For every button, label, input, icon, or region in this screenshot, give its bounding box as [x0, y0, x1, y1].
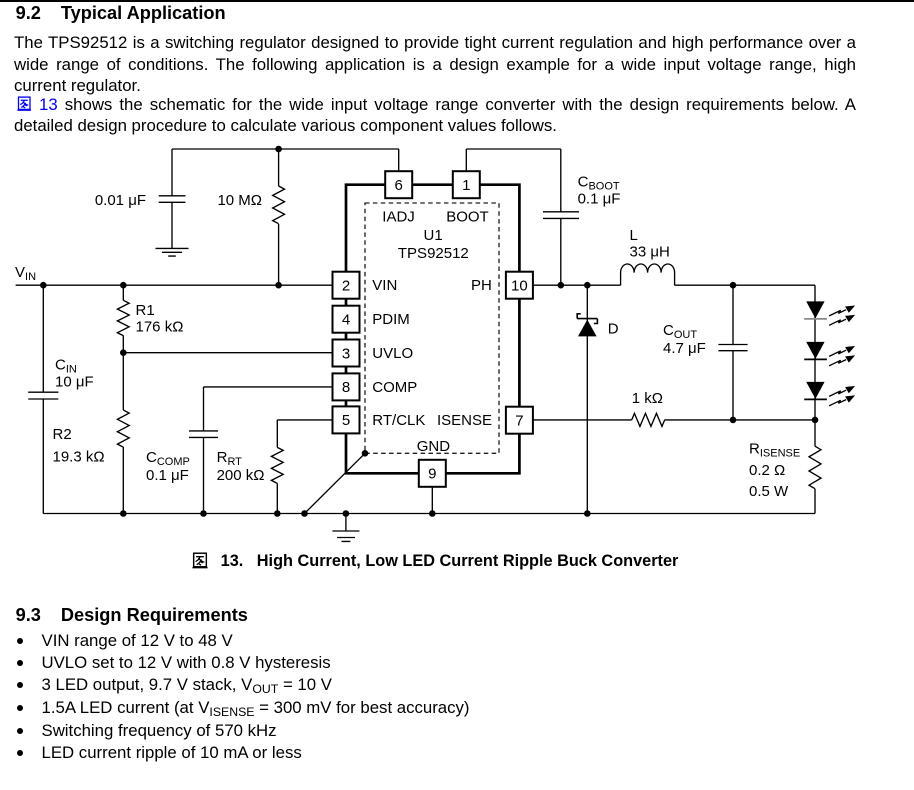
svg-text:RT/CLK: RT/CLK — [372, 412, 425, 429]
svg-text:IADJ: IADJ — [382, 209, 415, 226]
svg-text:0.01 μF: 0.01 μF — [95, 192, 146, 209]
svg-text:4.7 μF: 4.7 μF — [663, 340, 706, 357]
svg-text:4: 4 — [342, 312, 350, 329]
svg-text:1: 1 — [462, 177, 470, 194]
svg-text:9: 9 — [428, 466, 436, 483]
svg-text:COMP: COMP — [372, 379, 417, 396]
svg-text:8: 8 — [342, 379, 350, 396]
svg-text:2: 2 — [342, 278, 350, 295]
svg-text:3: 3 — [342, 345, 350, 362]
svg-text:7: 7 — [515, 413, 523, 430]
svg-text:ISENSE: ISENSE — [437, 412, 492, 429]
svg-text:10 MΩ: 10 MΩ — [217, 192, 262, 209]
svg-text:10: 10 — [511, 278, 528, 295]
svg-text:L: L — [630, 227, 638, 244]
svg-text:BOOT: BOOT — [446, 209, 489, 226]
svg-text:176 kΩ: 176 kΩ — [136, 319, 184, 336]
svg-text:CCOMP: CCOMP — [146, 449, 190, 468]
svg-text:PDIM: PDIM — [372, 311, 410, 328]
svg-text:1 kΩ: 1 kΩ — [632, 390, 663, 407]
svg-text:U1: U1 — [424, 227, 443, 244]
svg-text:0.1 μF: 0.1 μF — [578, 191, 621, 208]
svg-text:R1: R1 — [136, 302, 155, 319]
svg-text:VIN: VIN — [15, 264, 36, 283]
svg-text:0.1 μF: 0.1 μF — [146, 467, 189, 484]
svg-text:19.3 kΩ: 19.3 kΩ — [53, 449, 105, 466]
svg-text:D: D — [608, 321, 619, 338]
svg-text:GND: GND — [417, 438, 451, 455]
svg-text:0.2 Ω: 0.2 Ω — [749, 462, 785, 479]
svg-text:PH: PH — [471, 277, 492, 294]
svg-text:RRT: RRT — [217, 449, 243, 468]
svg-text:200 kΩ: 200 kΩ — [217, 467, 265, 484]
svg-text:5: 5 — [342, 412, 350, 429]
svg-text:UVLO: UVLO — [372, 345, 413, 362]
svg-text:6: 6 — [395, 177, 403, 194]
svg-text:TPS92512: TPS92512 — [398, 245, 469, 262]
svg-text:VIN: VIN — [372, 277, 397, 294]
svg-text:33 μH: 33 μH — [630, 244, 670, 261]
svg-text:10 μF: 10 μF — [55, 374, 94, 391]
svg-text:RISENSE: RISENSE — [749, 441, 800, 460]
svg-text:R2: R2 — [53, 426, 72, 443]
svg-text:COUT: COUT — [663, 322, 697, 341]
svg-text:0.5 W: 0.5 W — [749, 483, 789, 500]
